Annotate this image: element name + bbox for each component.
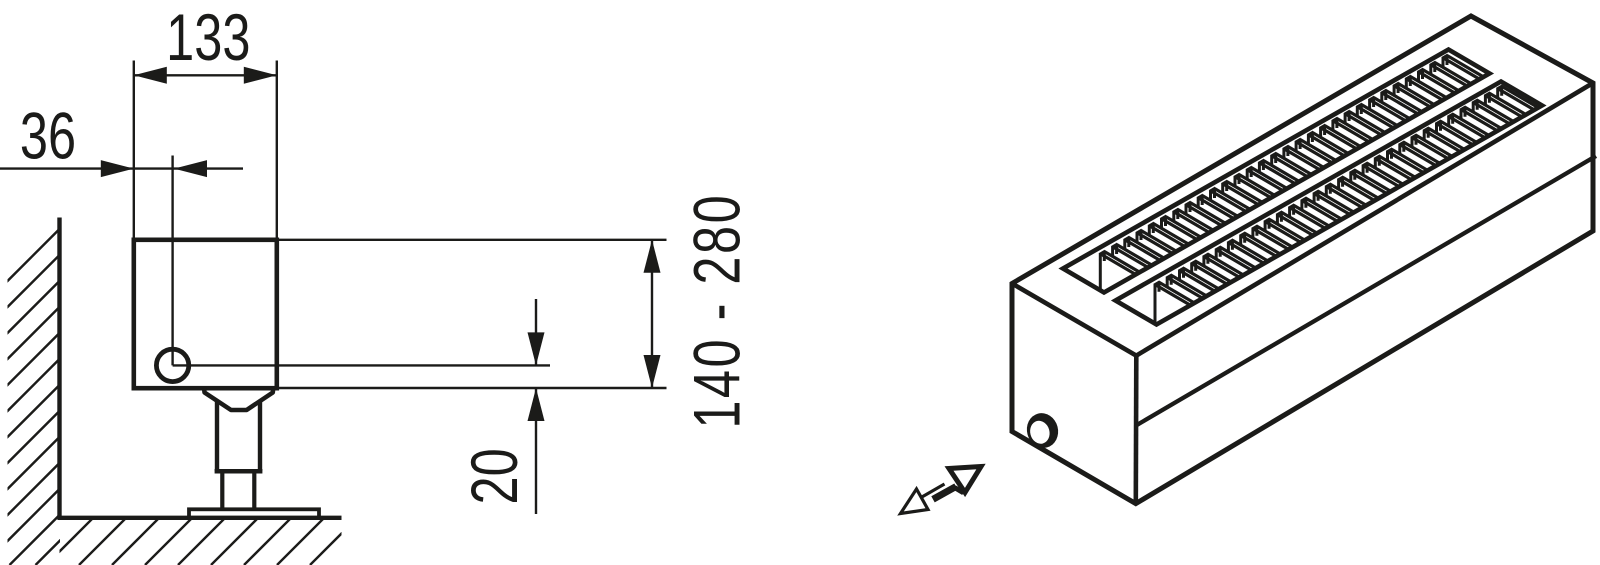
svg-text:133: 133 bbox=[166, 1, 250, 74]
svg-text:36: 36 bbox=[20, 100, 76, 173]
svg-text:20: 20 bbox=[459, 448, 532, 504]
svg-text:140 - 280: 140 - 280 bbox=[681, 195, 754, 428]
